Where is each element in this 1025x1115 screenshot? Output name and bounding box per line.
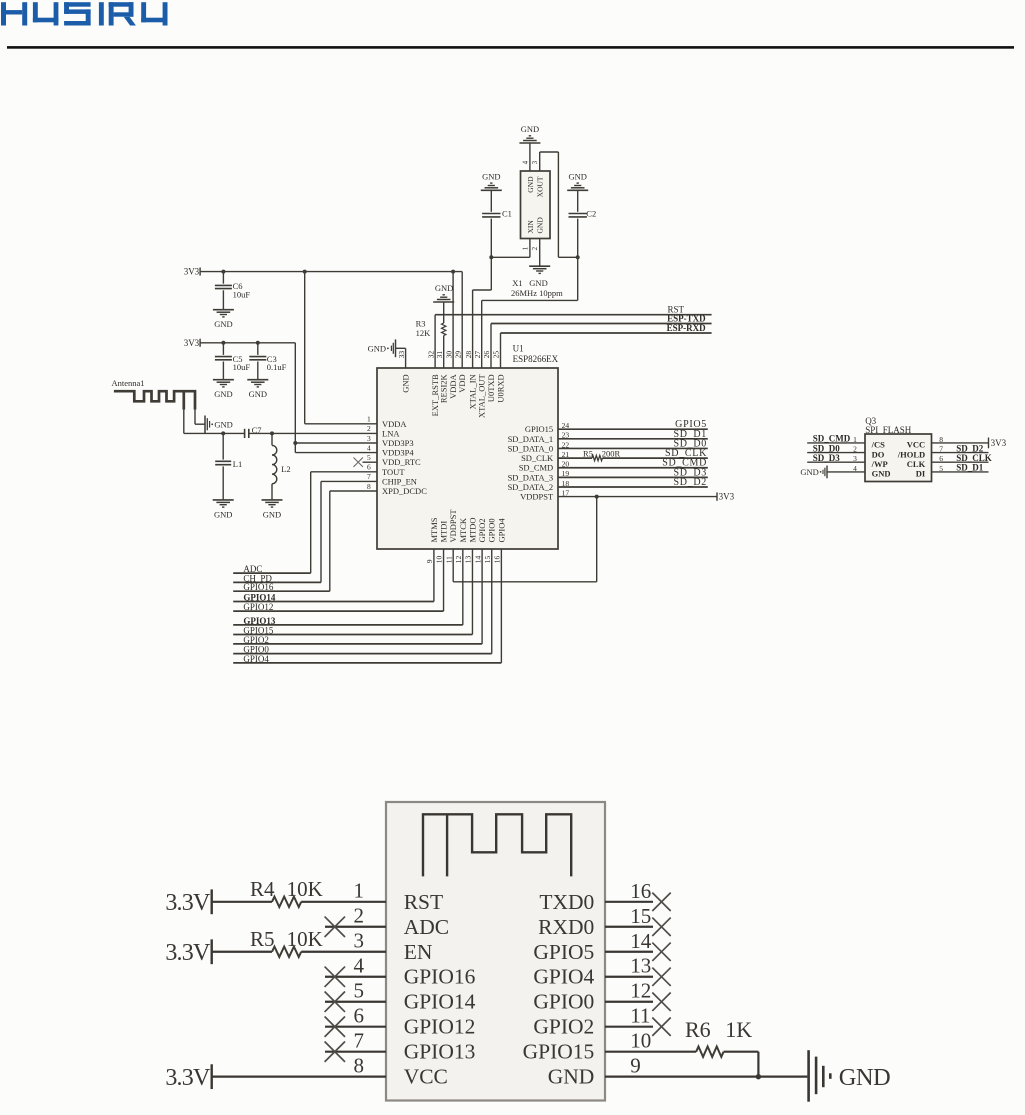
svg-text:GPIO5: GPIO5 (533, 940, 594, 964)
svg-text:GND: GND (214, 509, 232, 519)
svg-text:GND: GND (401, 374, 411, 392)
svg-text:R5: R5 (583, 448, 593, 458)
svg-text:GPIO16: GPIO16 (404, 965, 476, 989)
svg-text:2: 2 (354, 904, 365, 928)
svg-text:MTCK: MTCK (458, 517, 468, 542)
svg-text:GND: GND (263, 509, 281, 519)
svg-text:1: 1 (367, 415, 371, 424)
svg-text:GND: GND (800, 467, 818, 477)
svg-text:VDD3P3: VDD3P3 (382, 438, 414, 448)
svg-text:9: 9 (425, 559, 434, 563)
svg-text:3V3: 3V3 (719, 492, 735, 502)
svg-text:8: 8 (354, 1053, 365, 1077)
svg-text:3: 3 (354, 929, 365, 953)
svg-text:26MHz 10ppm: 26MHz 10ppm (511, 288, 563, 298)
svg-text:TXD0: TXD0 (539, 890, 594, 914)
svg-text:15: 15 (630, 904, 651, 928)
svg-text:LNA: LNA (382, 428, 400, 438)
svg-text:4: 4 (521, 160, 529, 164)
svg-text:14: 14 (473, 556, 482, 564)
svg-text:4: 4 (354, 954, 365, 978)
svg-text:VDD_RTC: VDD_RTC (382, 457, 421, 467)
svg-text:10: 10 (630, 1029, 651, 1053)
svg-text:GPIO15: GPIO15 (525, 424, 553, 434)
svg-text:13: 13 (630, 954, 651, 978)
svg-text:VDDA: VDDA (382, 419, 407, 429)
svg-text:SD_D0: SD_D0 (813, 443, 841, 453)
svg-text:GND: GND (214, 319, 232, 329)
svg-text:13: 13 (464, 556, 473, 564)
svg-text:16: 16 (630, 879, 651, 903)
svg-text:Antenna1: Antenna1 (112, 378, 145, 388)
svg-text:GND: GND (548, 1065, 595, 1089)
svg-text:2: 2 (531, 246, 539, 250)
svg-text:7: 7 (367, 472, 371, 481)
svg-text:XOUT: XOUT (536, 176, 545, 197)
svg-text:DI: DI (916, 469, 926, 479)
svg-text:GND: GND (526, 176, 535, 193)
svg-text:X1: X1 (512, 278, 522, 288)
svg-text:VDD: VDD (457, 374, 467, 392)
svg-text:ADC: ADC (404, 915, 449, 939)
svg-text:DO: DO (872, 449, 885, 459)
svg-text:10: 10 (435, 556, 444, 564)
svg-text:C1: C1 (502, 209, 512, 219)
svg-text:6: 6 (367, 463, 371, 472)
svg-text:VDD3P4: VDD3P4 (382, 448, 414, 458)
svg-text:28: 28 (464, 351, 473, 359)
svg-text:SD_CLK: SD_CLK (956, 453, 992, 463)
svg-text:26: 26 (482, 351, 491, 359)
svg-text:MTDO: MTDO (467, 517, 477, 542)
svg-text:3.3V: 3.3V (165, 1065, 211, 1091)
svg-text:7: 7 (354, 1028, 365, 1052)
svg-text:15: 15 (483, 556, 492, 564)
svg-text:SD_DATA_1: SD_DATA_1 (508, 434, 554, 444)
svg-text:5: 5 (354, 979, 365, 1003)
svg-text:CLK: CLK (907, 459, 926, 469)
svg-text:ESP-RXD: ESP-RXD (667, 323, 707, 333)
svg-text:GND: GND (214, 389, 232, 399)
svg-text:12: 12 (454, 556, 463, 564)
svg-text:5: 5 (367, 453, 371, 462)
svg-text:3.3V: 3.3V (165, 890, 211, 916)
svg-text:1K: 1K (725, 1017, 752, 1042)
svg-text:SD_D2: SD_D2 (673, 477, 707, 488)
svg-text:6: 6 (354, 1004, 365, 1028)
svg-text:VDDPST: VDDPST (520, 492, 554, 502)
svg-text:GPIO2: GPIO2 (533, 1015, 594, 1039)
svg-text:/WP: /WP (871, 459, 888, 469)
svg-text:9: 9 (630, 1054, 641, 1078)
svg-text:GPIO13: GPIO13 (404, 1040, 476, 1064)
svg-text:R3: R3 (416, 318, 426, 328)
svg-text:ESP8266EX: ESP8266EX (513, 354, 559, 364)
svg-text:8: 8 (367, 482, 371, 491)
svg-text:CHIP_EN: CHIP_EN (382, 476, 417, 486)
svg-text:U0TXD: U0TXD (486, 374, 496, 402)
svg-text:GPIO15: GPIO15 (523, 1040, 595, 1064)
svg-text:3V3: 3V3 (991, 438, 1007, 448)
svg-text:GPIO14: GPIO14 (243, 593, 276, 603)
svg-text:GND: GND (872, 469, 891, 479)
svg-text:GND: GND (568, 172, 586, 182)
svg-text:SD_CMD: SD_CMD (813, 434, 851, 444)
svg-text:SD_D3: SD_D3 (813, 453, 841, 463)
svg-text:MTDI: MTDI (439, 521, 449, 543)
svg-text:GPIO4: GPIO4 (243, 654, 269, 664)
svg-text:GPIO16: GPIO16 (243, 582, 274, 592)
svg-text:4: 4 (367, 443, 371, 452)
svg-text:GND: GND (368, 343, 386, 353)
svg-text:0.1uF: 0.1uF (267, 362, 287, 372)
svg-text:R6: R6 (685, 1017, 711, 1042)
svg-text:EN: EN (404, 940, 433, 964)
svg-text:GND: GND (482, 172, 500, 182)
svg-text:SD_DATA_3: SD_DATA_3 (508, 472, 554, 482)
svg-text:200R: 200R (602, 448, 621, 458)
svg-text:SD_DATA_2: SD_DATA_2 (508, 482, 554, 492)
svg-text:TOUT: TOUT (382, 467, 405, 477)
svg-text:GND: GND (249, 389, 267, 399)
svg-text:GPIO2: GPIO2 (243, 635, 269, 645)
svg-text:14: 14 (630, 929, 652, 953)
svg-text:GPIO0: GPIO0 (533, 990, 594, 1014)
svg-text:GPIO12: GPIO12 (404, 1015, 476, 1039)
svg-text:C2: C2 (586, 209, 596, 219)
svg-text:11: 11 (630, 1004, 650, 1028)
svg-text:/HOLD: /HOLD (897, 449, 925, 459)
svg-text:L1: L1 (233, 459, 242, 469)
svg-text:GPIO4: GPIO4 (533, 965, 594, 989)
svg-text:MTMS: MTMS (429, 517, 439, 542)
svg-text:GPIO4: GPIO4 (496, 518, 506, 543)
svg-text:GND: GND (521, 124, 539, 134)
svg-text:GND: GND (529, 278, 547, 288)
svg-text:3: 3 (531, 160, 539, 164)
svg-text:29: 29 (453, 351, 462, 359)
svg-text:10K: 10K (287, 877, 323, 901)
svg-text:SD_CMD: SD_CMD (519, 463, 553, 473)
svg-text:3.3V: 3.3V (165, 940, 211, 966)
svg-text:1: 1 (354, 879, 365, 903)
svg-text:SD_D2: SD_D2 (956, 443, 984, 453)
svg-text:SD_CLK: SD_CLK (521, 453, 554, 463)
svg-text:33: 33 (397, 351, 406, 359)
svg-text:SD_DATA_0: SD_DATA_0 (508, 443, 554, 453)
svg-text:30: 30 (444, 351, 453, 359)
svg-text:GPIO13: GPIO13 (243, 616, 276, 626)
svg-text:RXD0: RXD0 (538, 915, 594, 939)
svg-text:31: 31 (435, 351, 444, 359)
svg-text:XIN: XIN (526, 220, 535, 234)
svg-text:U0RXD: U0RXD (496, 374, 506, 402)
svg-text:L2: L2 (281, 464, 290, 474)
svg-text:R5: R5 (250, 927, 275, 951)
svg-text:GND: GND (536, 217, 545, 234)
svg-text:10uF: 10uF (233, 362, 251, 372)
svg-text:12K: 12K (416, 328, 432, 338)
svg-text:VCC: VCC (907, 440, 925, 450)
svg-text:1: 1 (521, 246, 529, 250)
svg-text:GND: GND (435, 283, 453, 293)
svg-text:GND: GND (214, 419, 232, 429)
svg-text:25: 25 (492, 351, 501, 359)
svg-text:VDDPST: VDDPST (448, 509, 458, 543)
svg-text:ESP-TXD: ESP-TXD (667, 313, 706, 323)
svg-text:3V3: 3V3 (184, 338, 200, 348)
svg-text:12: 12 (630, 979, 651, 1003)
svg-text:10uF: 10uF (233, 289, 251, 299)
svg-text:VCC: VCC (404, 1065, 448, 1089)
svg-text:GPIO14: GPIO14 (404, 990, 476, 1014)
svg-text:27: 27 (473, 351, 482, 359)
svg-text:SD_D1: SD_D1 (956, 463, 984, 473)
svg-text:U1: U1 (513, 344, 524, 354)
svg-text:3: 3 (367, 434, 371, 443)
svg-text:10K: 10K (287, 927, 323, 951)
svg-text:/CS: /CS (871, 440, 886, 450)
svg-text:GPIO12: GPIO12 (243, 602, 273, 612)
svg-text:XPD_DCDC: XPD_DCDC (382, 486, 427, 496)
svg-text:GPIO2: GPIO2 (477, 518, 487, 542)
svg-text:GPIO0: GPIO0 (487, 518, 497, 542)
svg-text:11: 11 (444, 556, 453, 563)
svg-text:RST: RST (404, 890, 443, 914)
svg-text:R4: R4 (250, 877, 275, 901)
svg-text:3V3: 3V3 (184, 267, 200, 277)
svg-text:2: 2 (367, 424, 371, 433)
svg-text:16: 16 (493, 556, 502, 564)
svg-text:GND: GND (839, 1064, 890, 1091)
